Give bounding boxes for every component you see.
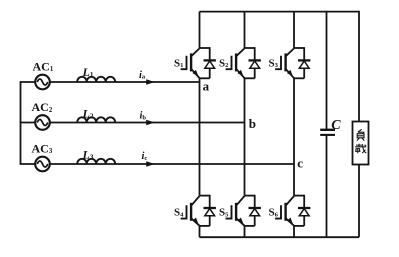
svg-text:a: a [203,78,210,93]
svg-text:b: b [249,116,256,131]
svg-text:C: C [331,118,341,133]
svg-text:c: c [297,156,303,171]
